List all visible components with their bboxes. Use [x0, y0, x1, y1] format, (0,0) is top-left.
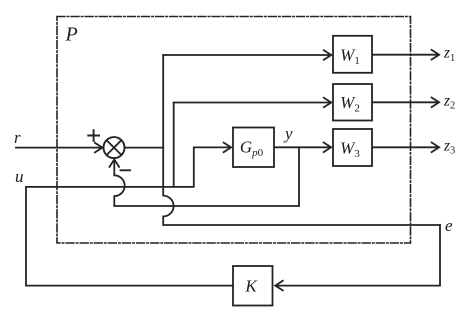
svg-text:P: P: [65, 24, 78, 46]
block W3: [333, 129, 372, 166]
svg-text:e: e: [445, 216, 453, 235]
wire W2 output to z2: [373, 101, 437, 103]
block W1: [333, 36, 372, 73]
summing junction S1: [104, 137, 125, 158]
svg-text:u: u: [15, 167, 24, 186]
arrowhead into G_p0: [224, 143, 232, 153]
wire W3 output to z3: [373, 146, 437, 148]
arrowhead into summing junction: [95, 143, 103, 153]
wire y feedback: branch at node C down and left to junction, hop over u line: [114, 147, 299, 206]
arrowhead z1: [432, 50, 440, 60]
svg-text:r: r: [14, 128, 21, 147]
block K: [233, 266, 273, 306]
plus sign: [88, 130, 99, 141]
wire W1 input: [163, 54, 329, 56]
arrowhead into junction (minus input): [110, 159, 120, 167]
block W2: [333, 84, 372, 121]
arrowhead z2: [432, 98, 440, 108]
wire sum output to node A: [125, 147, 164, 149]
svg-text:y: y: [283, 124, 293, 143]
plant boundary P (dash-dot box): [57, 17, 411, 244]
wire y: G_p0 output to W3: [274, 146, 329, 148]
wire r input: [16, 147, 100, 149]
wire vertical node A (e signal: up to W1, down to e line) with hop over y-feedback: [163, 55, 440, 225]
arrowhead into W1: [324, 50, 332, 60]
minus sign: [121, 169, 131, 171]
wire W2 input: [174, 102, 329, 104]
arrowhead z3: [432, 143, 440, 153]
wire u: K output loop left, up, into plant and G_p0: [26, 147, 233, 285]
arrowhead into W2: [324, 98, 332, 108]
svg-text:K: K: [244, 277, 258, 296]
arrowhead into K: [275, 281, 283, 291]
block G_p0: [233, 128, 274, 168]
wire e: corner down outside box into K: [278, 225, 441, 286]
wire vertical node B (u branch to W2): [173, 103, 175, 187]
arrowhead into W3: [324, 143, 332, 153]
wire W1 output to z1: [373, 54, 437, 56]
